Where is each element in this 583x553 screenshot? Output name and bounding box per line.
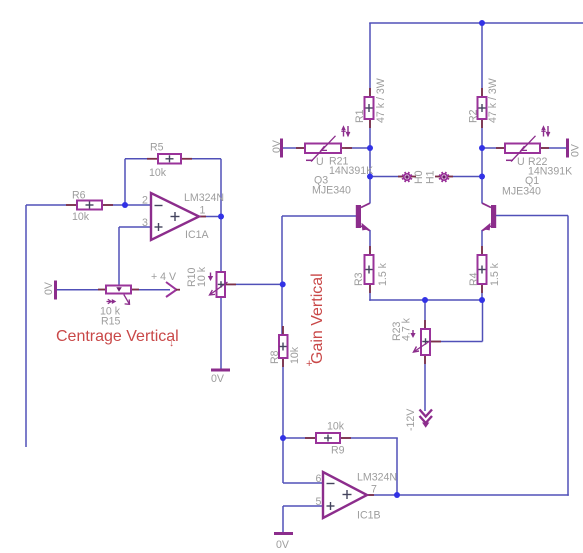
node R2 / R22 (479, 145, 485, 151)
value 10k of R6 (72, 211, 90, 223)
svg-text:0V: 0V (211, 373, 225, 385)
value 1.5k of R4 (489, 262, 501, 286)
label 0V right of R22 (570, 143, 582, 157)
wire R4 bottom to bottom rail (481, 284, 483, 300)
value 14N391K of R22 (528, 166, 572, 178)
trimmer R22 (496, 125, 550, 161)
pin 6 IC1B (316, 473, 322, 485)
label IC1A (185, 229, 209, 241)
label R21 (329, 156, 349, 168)
label 0V below IC1B (276, 539, 290, 551)
svg-text:1: 1 (200, 205, 206, 217)
node R2 branch / H1 (479, 174, 485, 180)
wire Q1 emitter to R4 (481, 230, 483, 255)
pin 5 IC1B (316, 496, 322, 508)
wire feedback top left (125, 158, 158, 160)
node R1 branch / H0 (367, 174, 373, 180)
svg-text:47 k / 3W: 47 k / 3W (487, 78, 499, 123)
pin 1 IC1A (200, 205, 206, 217)
wire rail to R2 top (481, 23, 483, 97)
label R15 (101, 316, 121, 328)
node gain bus / R9 (280, 435, 286, 441)
power +4V arrow (166, 282, 180, 297)
value 10k of R10 (196, 266, 208, 287)
ground 0V flag left of R21 (280, 139, 283, 158)
svg-text:R4: R4 (468, 272, 480, 286)
svg-text:10k: 10k (149, 167, 167, 179)
wire 0V flag to R15 (56, 289, 105, 291)
svg-text:0V: 0V (43, 281, 55, 295)
label Q1 (525, 175, 539, 187)
label H0 (413, 170, 425, 184)
wire R9 to corner x397 (340, 437, 398, 439)
svg-text:2: 2 (142, 195, 148, 207)
label H1 (425, 170, 437, 184)
label -12V (405, 408, 417, 431)
wire gain bus vertical lower (282, 358, 284, 483)
svg-text:R8: R8 (269, 350, 281, 364)
wire bottom rail (369, 299, 482, 301)
label R6 (72, 190, 86, 202)
label +4V (151, 271, 177, 283)
label R2 (468, 109, 480, 123)
wire input left vertical (25, 205, 27, 447)
svg-text:MJE340: MJE340 (312, 185, 351, 197)
wire R10 bottom to 0V (220, 298, 222, 369)
wire R23 wiper horizontal (430, 341, 483, 343)
wire 0V flag to R21 (283, 147, 306, 149)
wire feedback left vertical (124, 159, 126, 205)
svg-text:10 k: 10 k (196, 266, 208, 287)
svg-text:H1: H1 (425, 170, 437, 184)
label R1 (354, 109, 366, 123)
svg-text:R1: R1 (354, 109, 366, 123)
svg-text:0V: 0V (276, 539, 290, 551)
svg-text:3: 3 (142, 217, 148, 229)
value 1.5k of R3 (377, 262, 389, 286)
op-amp IC1B (323, 472, 374, 518)
svg-text:↓: ↓ (169, 338, 174, 349)
ground 0V flag below R10 (211, 369, 230, 372)
wire R10 wiper to gain bus (225, 283, 282, 285)
svg-text:IC1B: IC1B (357, 510, 381, 522)
svg-text:0V: 0V (271, 139, 283, 153)
resistor R9 (305, 433, 351, 443)
svg-text:-12V: -12V (405, 408, 417, 431)
value MJE340 of Q1 (502, 186, 541, 198)
label R5 (150, 142, 164, 154)
op-amp IC1A (151, 193, 206, 240)
wire feedback top right (181, 158, 221, 160)
wire pin3 down to R15 wiper (118, 227, 120, 285)
wire R9 right down to output (396, 438, 398, 495)
label 0V far left (43, 281, 55, 295)
svg-text:IC1A: IC1A (185, 229, 209, 241)
wire IC1B pin5 (283, 505, 323, 507)
svg-text:R5: R5 (150, 142, 164, 154)
wire right feedback vertical (567, 216, 569, 496)
svg-text:R6: R6 (72, 190, 86, 202)
label R9 (331, 445, 345, 457)
svg-text:R9: R9 (331, 445, 345, 457)
value 4.7k of R23 (401, 317, 413, 341)
node R10 wiper / gain bus (280, 281, 286, 287)
svg-text:47 k / 3W: 47 k / 3W (375, 78, 387, 123)
svg-text:R3: R3 (353, 272, 365, 286)
resistor R8 (279, 326, 288, 367)
resistor R3 (365, 246, 374, 293)
svg-text:14N391K: 14N391K (329, 165, 373, 177)
transistor Q3 (356, 203, 370, 230)
wire output down to R10 (220, 216, 222, 272)
value 10 k of R15 (100, 306, 121, 318)
svg-text:10k: 10k (289, 346, 301, 364)
connector H1 (435, 172, 453, 182)
pin 2 IC1A (142, 195, 148, 207)
label U of R21 (316, 156, 324, 168)
svg-text:7: 7 (371, 484, 377, 496)
wire pin5 to 0V (282, 506, 284, 533)
wire R3 bottom to bottom rail (369, 284, 371, 301)
value 10k of R5 (149, 167, 167, 179)
label Q3 (314, 175, 328, 187)
svg-text:+ 4 V: + 4 V (151, 271, 177, 283)
wire gain bus vertical upper (281, 216, 283, 335)
svg-text:Centrage Vertical: Centrage Vertical (56, 328, 179, 345)
svg-text:LM324N: LM324N (184, 192, 224, 204)
wire node x370 to H0 (370, 176, 402, 178)
wire feedback right vertical (220, 159, 222, 216)
value 10k of R9 (327, 421, 345, 433)
svg-text:1.5 k: 1.5 k (489, 262, 501, 286)
wire H1 to node x482 (449, 176, 482, 178)
wire IC1B output rail (367, 494, 569, 496)
wire Q1 base (496, 215, 568, 217)
wire R23 wiper up to rail (482, 300, 484, 342)
svg-text:Gain Vertical: Gain Vertical (309, 273, 326, 364)
node IC1A output (218, 214, 224, 220)
wire R2 bottom to Q1 collector (481, 119, 483, 204)
label R3 (353, 272, 365, 286)
pin 3 IC1A (142, 217, 148, 229)
value MJE340 of Q3 (312, 185, 351, 197)
resistor R1 (365, 88, 374, 128)
svg-text:5: 5 (316, 496, 322, 508)
wire bottom rail to R23 top (424, 300, 426, 329)
label R4 (468, 272, 480, 286)
pin 7 IC1B (371, 484, 377, 496)
svg-text:1.5 k: 1.5 k (377, 262, 389, 286)
svg-text:H0: H0 (413, 170, 425, 184)
annotation Centrage Vertical (56, 328, 179, 349)
wire R15 to +4V arrow (132, 289, 170, 291)
connector H0 (398, 172, 416, 182)
svg-text:10k: 10k (327, 421, 345, 433)
wire IC1B pin6 (283, 482, 323, 484)
node bottom rail / R23 (422, 297, 428, 303)
wire top +12V rail (369, 22, 583, 24)
ground 0V flag far left (54, 281, 57, 300)
potentiometer R23 (410, 320, 441, 364)
ground 0V flag right of R22 (566, 139, 569, 158)
wire IC1A pin3 horizontal (119, 226, 151, 228)
value 47k/3W of R1 (375, 78, 387, 123)
label 0V below R10 (211, 373, 225, 385)
svg-text:LM324N: LM324N (357, 472, 397, 484)
svg-text:6: 6 (316, 473, 322, 485)
wire Q3 base (282, 215, 356, 217)
resistor R4 (478, 246, 487, 293)
label R10 (186, 267, 198, 287)
value 10k of R8 (289, 346, 301, 364)
wire R22 to 0V flag (540, 147, 567, 149)
trimmer R21 (296, 125, 352, 161)
annotation Gain Vertical (306, 273, 326, 370)
label LM324N of IC1B (357, 472, 397, 484)
node IC1B output (394, 492, 400, 498)
svg-text:R2: R2 (468, 109, 480, 123)
wire gain bus to R9 (283, 437, 316, 439)
wire Q3 emitter to R3 (369, 230, 371, 255)
svg-text:10k: 10k (72, 211, 90, 223)
power -12V arrow (420, 410, 433, 428)
wire R6 to IC1A pin2 (102, 204, 151, 206)
svg-text:+: + (306, 358, 312, 370)
wire R1 bottom to Q3 collector (369, 119, 371, 204)
svg-text:U: U (316, 156, 324, 168)
ground 0V flag below IC1B pin5 (274, 532, 293, 535)
resistor R5 (147, 154, 192, 164)
wire node x482 to R22 (482, 147, 505, 149)
label 0V left of R21 (271, 139, 283, 153)
wire R21 to node at x370 (345, 147, 370, 149)
svg-text:4.7 k: 4.7 k (401, 317, 413, 341)
node bottom rail / R4 / wiper (479, 297, 485, 303)
svg-text:U: U (517, 156, 525, 168)
potentiometer R10 (208, 272, 236, 297)
value 47k/3W of R2 (487, 78, 499, 123)
transistor Q1 (482, 203, 496, 230)
potentiometer R15 (98, 286, 139, 305)
wire input left horizontal (26, 204, 77, 206)
label LM324N of IC1A (184, 192, 224, 204)
wire rail to R1 top (369, 23, 371, 97)
node R1 / R21 (367, 145, 373, 151)
resistor R6 (66, 201, 113, 210)
node R6 / R5 feedback (122, 202, 128, 208)
svg-text:R15: R15 (101, 316, 121, 328)
label R23 (391, 321, 403, 341)
label R22 (528, 156, 548, 168)
label R8 (269, 350, 281, 364)
wire R23 bottom to -12V (424, 355, 426, 411)
resistor R2 (478, 88, 487, 128)
svg-text:MJE340: MJE340 (502, 186, 541, 198)
label U of R22 (517, 156, 525, 168)
svg-text:0V: 0V (570, 143, 582, 157)
label IC1B (357, 510, 381, 522)
node top rail / R2 branch (479, 20, 485, 26)
value 14N391K of R21 (329, 165, 373, 177)
wire IC1A output (199, 216, 221, 218)
